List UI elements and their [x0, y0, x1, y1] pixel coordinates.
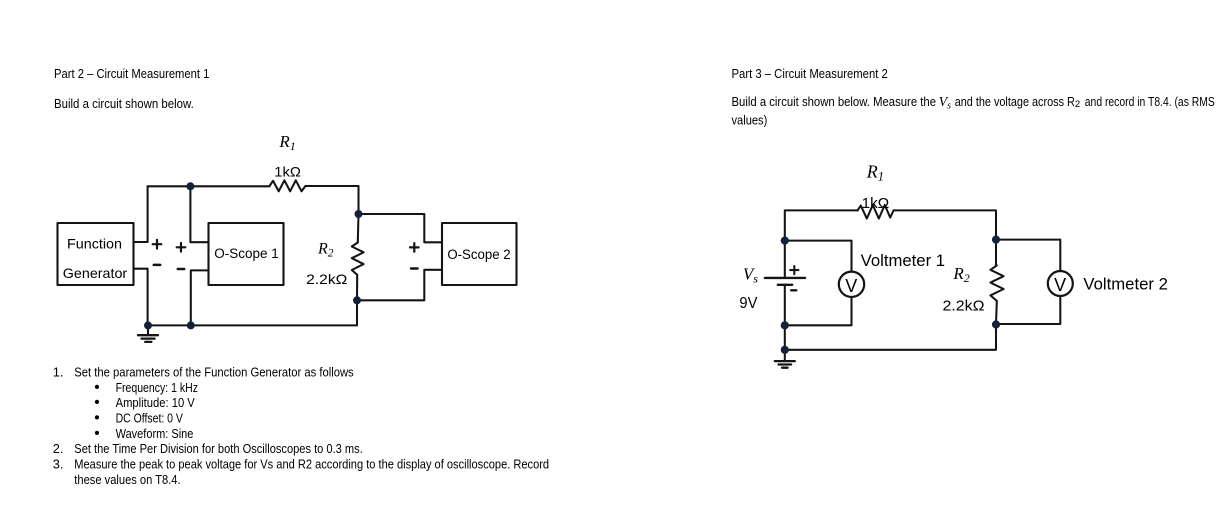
junction dot right top-left: [781, 237, 789, 245]
ground right bar 2: [779, 363, 792, 365]
junction dot ground: [144, 321, 152, 329]
battery short plate: [778, 284, 792, 286]
ground stub right: [784, 350, 786, 361]
function generator box: [58, 223, 134, 285]
svg-text:Part 3 – Circuit Measurement 2: Part 3 – Circuit Measurement 2: [732, 66, 888, 81]
svg-text:Set the parameters of the Func: Set the parameters of the Function Gener…: [74, 365, 353, 380]
junction dot right top-right: [992, 236, 1000, 244]
wire top rail left: [785, 210, 858, 240]
wire top rail right: [894, 210, 997, 239]
svg-text:and the voltage across R: and the voltage across R: [955, 94, 1075, 109]
wire node B to o-scope2 plus: [359, 214, 443, 242]
junction dot right ground: [781, 346, 789, 354]
svg-text:2.2kΩ: 2.2kΩ: [943, 298, 985, 315]
ground right bar 3: [782, 367, 788, 369]
plus sign o-scope1: [177, 243, 186, 252]
resistor R1 zigzag: [270, 180, 306, 191]
battery minus sign: [791, 289, 796, 291]
wire bottom rail right: [785, 325, 996, 350]
svg-text:2.2kΩ: 2.2kΩ: [306, 271, 347, 287]
svg-text:1kΩ: 1kΩ: [274, 164, 301, 180]
wire bottom rail: [148, 300, 357, 325]
svg-text:O-Scope 2: O-Scope 2: [447, 247, 510, 262]
wire voltmeter1 top: [785, 241, 852, 272]
wire FG plus to top: [134, 186, 148, 242]
svg-text:Part 2 – Circuit Measurement 1: Part 2 – Circuit Measurement 1: [54, 66, 209, 81]
svg-text:Vs: Vs: [743, 265, 758, 286]
minus sign o-scope1: [178, 268, 184, 271]
svg-text:3.: 3.: [53, 457, 64, 472]
svg-text:Build a circuit shown below. M: Build a circuit shown below. Measure the: [732, 94, 937, 109]
resistor R2 zigzag: [352, 243, 364, 275]
svg-text:R2: R2: [952, 264, 969, 285]
svg-text:R1: R1: [278, 132, 295, 153]
ground right bar 1: [775, 360, 795, 362]
svg-text:O-Scope 1: O-Scope 1: [214, 246, 278, 261]
wire battery bottom lead: [784, 285, 786, 350]
junction dot right mid-left: [781, 321, 789, 329]
ground stub: [147, 325, 149, 335]
junction dot right bottom-right: [992, 320, 1000, 328]
svg-text:Amplitude: 10 V: Amplitude: 10 V: [116, 395, 196, 410]
ground bar 1: [138, 334, 158, 336]
wire R1 to node B: [306, 186, 359, 214]
svg-text:R2: R2: [317, 241, 334, 260]
resistor R2 lead top: [357, 214, 360, 243]
wire voltmeter1 bottom: [785, 297, 852, 325]
minus sign o-scope2: [411, 267, 417, 270]
svg-text:Voltmeter 1: Voltmeter 1: [861, 252, 946, 270]
resistor R1 right zigzag: [858, 205, 894, 219]
junction dot node C: [353, 296, 361, 304]
ground bar 3: [145, 341, 151, 343]
battery long plate: [765, 277, 805, 279]
ground bar 2: [142, 337, 155, 339]
svg-text:Set the Time Per Division for: Set the Time Per Division for both Oscil…: [74, 441, 363, 456]
o-scope 2 box: [442, 223, 517, 285]
svg-text:Generator: Generator: [63, 265, 128, 281]
voltmeter 1 circle: [839, 272, 864, 297]
resistor R2 lead bottom: [356, 275, 358, 301]
wire top rail: [148, 185, 270, 187]
minus sign FG: [154, 264, 160, 267]
o-scope 1 box: [209, 223, 284, 285]
battery plus sign: [790, 266, 798, 274]
junction dot node A: [186, 182, 194, 190]
resistor R2 right zigzag: [990, 266, 1003, 301]
svg-text:values): values): [732, 112, 768, 127]
svg-text:Voltmeter 2: Voltmeter 2: [1083, 276, 1168, 294]
wire voltmeter2 top: [996, 240, 1060, 271]
resistor R2 right lead bottom: [995, 301, 998, 325]
wire junction A to o-scope1 plus: [190, 186, 208, 242]
svg-text:Waveform: Sine: Waveform: Sine: [116, 426, 194, 441]
svg-text:R1: R1: [866, 161, 884, 183]
svg-text:V: V: [1054, 275, 1066, 295]
junction dot bottom rail: [187, 321, 195, 329]
wire voltmeter2 bottom: [996, 296, 1060, 324]
junction dot node B: [355, 210, 363, 218]
svg-text:Frequency: 1 kHz: Frequency: 1 kHz: [116, 380, 198, 395]
svg-text:Measure the peak to peak volta: Measure the peak to peak voltage for Vs …: [74, 457, 549, 472]
wire o-scope1 minus down: [191, 270, 209, 325]
svg-text:these values on T8.4.: these values on T8.4.: [74, 472, 180, 487]
svg-text:2.: 2.: [53, 441, 64, 456]
wire battery top lead: [784, 241, 786, 277]
wire node C to o-scope2 minus: [357, 270, 442, 301]
plus sign o-scope2: [410, 243, 419, 252]
voltmeter 2 circle: [1048, 271, 1073, 296]
svg-text:V: V: [845, 276, 857, 296]
svg-text:Function: Function: [67, 236, 122, 252]
svg-text:Vs: Vs: [939, 95, 952, 112]
svg-text:and record in T8.4. (as RMS: and record in T8.4. (as RMS: [1085, 94, 1215, 109]
svg-text:2: 2: [1075, 99, 1080, 110]
svg-text:•: •: [94, 425, 99, 442]
svg-text:1.: 1.: [53, 365, 64, 380]
svg-text:9V: 9V: [739, 295, 757, 312]
svg-text:1kΩ: 1kΩ: [862, 196, 890, 212]
resistor R2 right lead top: [995, 240, 997, 266]
svg-text:DC Offset: 0 V: DC Offset: 0 V: [116, 411, 184, 426]
wire FG minus down: [134, 269, 148, 326]
plus sign FG: [153, 240, 162, 249]
svg-text:Build a circuit shown below.: Build a circuit shown below.: [54, 96, 194, 111]
